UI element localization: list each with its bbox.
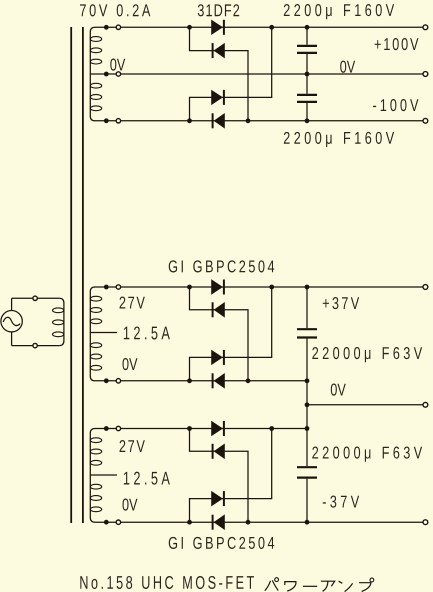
wire mid minus rail	[95, 380, 307, 382]
terminal -100V	[423, 118, 428, 123]
node bottom plus branch	[187, 426, 192, 431]
node rail A bridge+	[269, 25, 274, 30]
transformer primary winding	[53, 298, 64, 345]
label 0V output	[331, 384, 346, 396]
wire -37V rail	[95, 521, 423, 523]
wire bottom plus rail	[95, 428, 307, 430]
connector plug bottom	[33, 343, 37, 347]
wire capacitor leg C2	[306, 74, 308, 121]
node bottom plus bridge+	[269, 426, 274, 431]
label -37V	[323, 496, 359, 508]
capacitor C3 22000uF63V	[297, 329, 317, 337]
label 22000uF63V mid	[312, 347, 422, 362]
label katakana power-amp	[265, 578, 374, 592]
transformer core	[71, 27, 83, 523]
T3 top terminal	[104, 426, 121, 431]
transformer secondary T1 70V 0.2A	[90, 27, 101, 121]
node 0V cap	[305, 72, 310, 77]
label GI GBPC2504 bottom	[169, 537, 274, 549]
node mid minus branch	[187, 378, 192, 383]
T2 top terminal	[104, 285, 121, 290]
wire capacitor leg C1	[306, 27, 308, 74]
label +37V	[323, 297, 359, 309]
node rail B branch	[187, 118, 192, 123]
label GI GBPC2504 top	[169, 260, 274, 272]
capacitor C2 2200uF160V	[297, 95, 317, 102]
wire +100V rail	[95, 26, 423, 28]
node -37V bridge-	[246, 520, 251, 525]
wire 0V bus vertical	[306, 381, 308, 429]
wire capacitor leg C4	[306, 429, 308, 523]
label No.158 UHC MOS-FET	[80, 576, 254, 589]
terminal 0V top	[423, 72, 428, 77]
wire D2 branch bottom section	[190, 429, 249, 523]
label 0V rail top	[340, 61, 355, 73]
node +37V rail cap	[305, 285, 310, 290]
label -100V	[373, 99, 418, 111]
node rail A cap	[305, 25, 310, 30]
node -37V cap	[305, 520, 310, 525]
wire D3 branch top section	[190, 27, 272, 121]
transformer secondary T2 27V 12.5A	[90, 287, 117, 381]
wire 0V output	[307, 404, 423, 406]
diode D4 31DF2	[213, 113, 225, 128]
diode D6 GBPC2504	[213, 302, 225, 317]
label +100V	[375, 38, 419, 50]
node -37V branch	[187, 520, 192, 525]
connector plug top	[33, 296, 37, 300]
diode D3 31DF2	[212, 90, 224, 105]
wire AC source to primary	[12, 298, 60, 345]
diode D8 GBPC2504	[213, 373, 225, 388]
node +37V rail bridge+	[269, 285, 274, 290]
label 31DF2	[198, 4, 239, 16]
terminal -37V	[423, 520, 428, 525]
node 0V bus	[305, 402, 310, 407]
terminal +37V	[423, 285, 428, 290]
diode D10 GBPC2504	[213, 444, 225, 459]
label 22000uF63V bottom	[312, 447, 422, 462]
terminal +100V	[423, 25, 428, 30]
label 27V T3	[120, 440, 145, 452]
AC source V1	[1, 311, 22, 332]
diode D7 GBPC2504	[212, 350, 224, 365]
diode D2 31DF2	[213, 43, 225, 58]
T1 top terminal	[104, 25, 121, 30]
diode D11 GBPC2504	[212, 491, 224, 506]
diode D5 GBPC2504	[212, 280, 224, 295]
wire D3 branch bottom section	[190, 429, 272, 523]
node rail B cap	[305, 118, 310, 123]
transformer secondary T3 27V 12.5A	[90, 429, 117, 523]
label 0V tap T1	[110, 59, 125, 71]
T3 bottom terminal	[104, 520, 121, 525]
wire D2 branch top section	[190, 27, 249, 121]
node +37V rail branch	[187, 285, 192, 290]
label 12.5A T2	[124, 326, 170, 339]
node rail A branch	[187, 25, 192, 30]
diode D9 GBPC2504	[212, 421, 224, 436]
wire D3 branch mid section	[190, 287, 272, 381]
label 0V T2	[122, 358, 137, 370]
T2 bottom terminal	[104, 378, 121, 383]
node mid minus cap	[305, 378, 310, 383]
diode D12 GBPC2504	[213, 515, 225, 530]
node rail B bridge-	[246, 118, 251, 123]
label 2200uF160V bottom	[284, 132, 394, 147]
terminal 0V	[423, 402, 428, 407]
wire capacitor leg C3	[306, 287, 308, 381]
capacitor C1 2200uF160V	[297, 46, 317, 53]
wire 0V rail top section	[90, 73, 423, 75]
label 12.5A T3	[124, 472, 170, 485]
label 70V 0.2A	[80, 4, 150, 16]
node bottom plus cap	[305, 426, 310, 431]
label 0V T3	[122, 499, 137, 511]
wire -100V rail	[95, 120, 423, 122]
diode D1 31DF2	[212, 20, 224, 35]
T1 tap 0V terminal	[104, 72, 121, 77]
capacitor C4 22000uF63V	[297, 467, 317, 477]
node mid minus bridge-	[246, 378, 251, 383]
T1 bottom terminal	[104, 118, 121, 123]
label 27V T2	[120, 297, 145, 309]
label 2200uF160V top	[284, 4, 394, 19]
wire +37V rail	[95, 286, 423, 288]
wire D2 branch mid section	[190, 287, 249, 381]
